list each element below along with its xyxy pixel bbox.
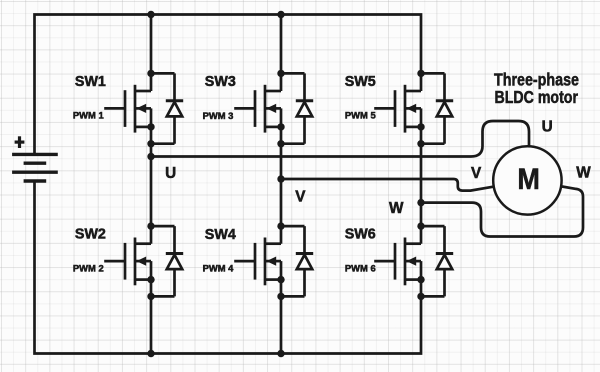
node: SW2 drain / diode junction — [147, 222, 154, 229]
battery B1: DC supply (two cells) — [12, 154, 58, 181]
svg-text:PWM 5: PWM 5 — [345, 110, 376, 121]
wire: top bus to SW3 drain — [280, 15, 283, 92]
transistor SW5: N-channel MOSFET — [374, 85, 421, 133]
diode: body diode of SW4 — [281, 226, 313, 296]
motor M: three-phase BLDC motor body — [493, 146, 561, 214]
wire: negative rail (battery - down, bottom DC bus, up to SW6 source) — [35, 180, 422, 354]
svg-text:PWM 3: PWM 3 — [203, 110, 234, 121]
svg-text:M: M — [517, 163, 540, 196]
svg-text:V: V — [471, 165, 482, 182]
node: SW2 diode return junction — [147, 293, 154, 300]
label: title "Three-phase BLDC motor" — [494, 70, 579, 107]
node: SW5 source junction — [417, 123, 424, 130]
transistor SW4: N-channel MOSFET — [234, 238, 281, 286]
svg-text:SW3: SW3 — [205, 74, 236, 90]
svg-text:U: U — [165, 165, 176, 182]
node: bottom bus / SW4 column — [277, 350, 284, 357]
svg-text:SW6: SW6 — [345, 227, 376, 243]
svg-text:PWM 4: PWM 4 — [203, 263, 235, 274]
wire: SW2 source to bottom bus — [150, 280, 153, 354]
wire: SW1 source / U node / SW2 drain column — [150, 127, 153, 244]
diode: body diode of SW1 — [151, 73, 183, 143]
node: SW5 drain / diode junction — [417, 70, 424, 77]
svg-text:SW5: SW5 — [345, 74, 376, 90]
node: phase W tap — [417, 199, 424, 206]
node: SW1 source junction — [147, 123, 154, 130]
svg-text:PWM 1: PWM 1 — [73, 110, 104, 121]
node: SW4 diode return junction — [277, 293, 284, 300]
node: SW3 source junction — [277, 123, 284, 130]
node: SW4 drain / diode junction — [277, 222, 284, 229]
svg-text:U: U — [542, 118, 553, 135]
node: top bus / SW3 column — [277, 11, 284, 18]
wire: SW5 source / W node / SW6 drain column — [420, 127, 423, 244]
node: SW3 diode return junction — [277, 140, 284, 147]
transistor SW6: N-channel MOSFET — [374, 238, 421, 286]
wire: SW3 source / V node / SW4 drain column — [280, 127, 283, 244]
node: SW6 drain / diode junction — [417, 222, 424, 229]
node: phase V tap — [277, 175, 284, 182]
wire: phase V from SW3/SW4 midpoint to motor terminal V — [281, 179, 493, 191]
svg-text:W: W — [576, 165, 591, 182]
transistor SW2: N-channel MOSFET — [104, 238, 151, 286]
wire: phase U from SW1/SW2 midpoint to motor terminal U — [151, 121, 529, 157]
node: SW4 source junction — [277, 276, 284, 283]
node: SW6 diode return junction — [417, 293, 424, 300]
svg-text:BLDC motor: BLDC motor — [495, 87, 579, 107]
node: SW2 source junction — [147, 276, 154, 283]
wire: SW4 source to bottom bus — [280, 280, 283, 354]
node: bottom bus / SW2 column — [147, 350, 154, 357]
label: battery + terminal — [15, 136, 25, 148]
diode: body diode of SW2 — [151, 226, 183, 296]
svg-text:SW1: SW1 — [75, 74, 106, 90]
svg-text:W: W — [389, 200, 404, 217]
svg-text:PWM 6: PWM 6 — [345, 262, 376, 273]
node: SW1 drain / diode junction — [147, 70, 154, 77]
svg-text:SW2: SW2 — [75, 227, 106, 243]
transistor SW1: N-channel MOSFET — [104, 85, 151, 133]
node: phase U tap — [147, 153, 154, 160]
node: top bus / SW1 column — [147, 11, 154, 18]
wire: top bus to SW1 drain — [150, 15, 153, 92]
diode: body diode of SW6 — [421, 226, 453, 296]
node: SW6 source junction — [417, 276, 424, 283]
diode: body diode of SW3 — [281, 73, 313, 143]
svg-text:V: V — [295, 188, 306, 205]
diode: body diode of SW5 — [421, 73, 453, 143]
wire: phase W from SW5/SW6 midpoint to motor terminal W — [422, 187, 583, 237]
node: SW5 diode return junction — [417, 140, 424, 147]
node: SW3 drain / diode junction — [277, 70, 284, 77]
wire: positive rail (battery + up, top DC bus, drop to SW5 drain) — [35, 15, 422, 156]
node: SW1 diode return junction — [147, 140, 154, 147]
transistor SW3: N-channel MOSFET — [234, 85, 281, 133]
svg-text:PWM 2: PWM 2 — [73, 262, 104, 273]
svg-text:SW4: SW4 — [205, 227, 236, 243]
